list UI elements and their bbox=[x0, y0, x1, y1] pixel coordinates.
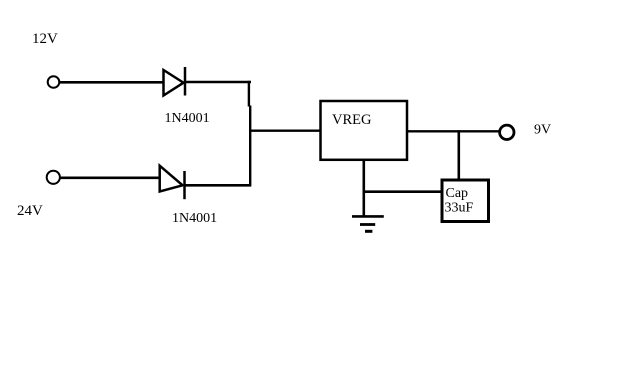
wire output junction down to capacitor bbox=[457, 130, 460, 179]
wire 12V terminal to D1 anode bbox=[60, 81, 164, 84]
diode D2 cathode bar bbox=[183, 171, 186, 199]
wire bus junction to VREG input bbox=[249, 129, 321, 131]
capacitor C1 box bbox=[442, 180, 489, 222]
regulator U1 VREG box bbox=[321, 101, 408, 160]
terminal 12V input bbox=[48, 76, 60, 88]
diode D1 1N4001 triangle bbox=[164, 70, 184, 96]
diode D2 1N4001 triangle bbox=[160, 166, 183, 192]
svg-text:1N4001: 1N4001 bbox=[165, 111, 210, 126]
ground symbol bar 3 bbox=[365, 230, 372, 233]
svg-text:1N4001: 1N4001 bbox=[172, 211, 217, 226]
wire 24V terminal to D2 anode bbox=[60, 177, 160, 180]
terminal 24V input bbox=[47, 171, 60, 184]
wire vertical bus lower segment bbox=[249, 106, 251, 187]
wire vertical bus upper segment bbox=[248, 81, 250, 107]
svg-text:VREG: VREG bbox=[332, 112, 372, 128]
wire VREG output to 9V terminal bbox=[407, 130, 499, 132]
svg-text:12V: 12V bbox=[32, 31, 58, 47]
wire ground node to capacitor bbox=[364, 190, 442, 193]
wire D2 cathode to bus bbox=[185, 184, 252, 187]
svg-text:33uF: 33uF bbox=[445, 201, 474, 216]
ground symbol bar 2 bbox=[360, 223, 375, 226]
wire VREG ground pin down bbox=[362, 160, 365, 216]
diode D1 cathode bar bbox=[184, 67, 187, 96]
svg-text:9V: 9V bbox=[534, 123, 551, 138]
svg-text:24V: 24V bbox=[17, 203, 43, 219]
ground symbol bar 1 bbox=[352, 215, 384, 218]
terminal 9V output bbox=[500, 125, 514, 139]
wire D1 cathode to bus bbox=[185, 81, 251, 84]
svg-text:Cap: Cap bbox=[446, 186, 469, 201]
